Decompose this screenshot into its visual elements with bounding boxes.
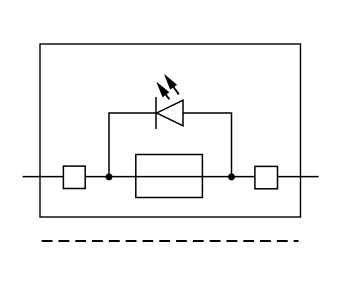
fuse F1 (rectangle over conductor): [136, 155, 203, 198]
LED emission arrow 1 (lower left): [157, 83, 169, 100]
right clamp contact: [255, 166, 278, 188]
outer enclosure box: [40, 44, 301, 217]
wire: main through conductor: [23, 176, 319, 178]
dashed separation line: [42, 240, 299, 242]
LED D1 triangle: [157, 100, 183, 126]
left clamp contact: [63, 166, 85, 188]
LED emission arrow 2 (upper right): [165, 75, 179, 95]
node B (right junction dot): [228, 173, 235, 180]
wire: right branch riser: [183, 113, 232, 177]
LED D1 cathode bar: [155, 97, 157, 129]
node A (left junction dot): [106, 173, 113, 180]
wire: left branch riser: [109, 113, 156, 177]
